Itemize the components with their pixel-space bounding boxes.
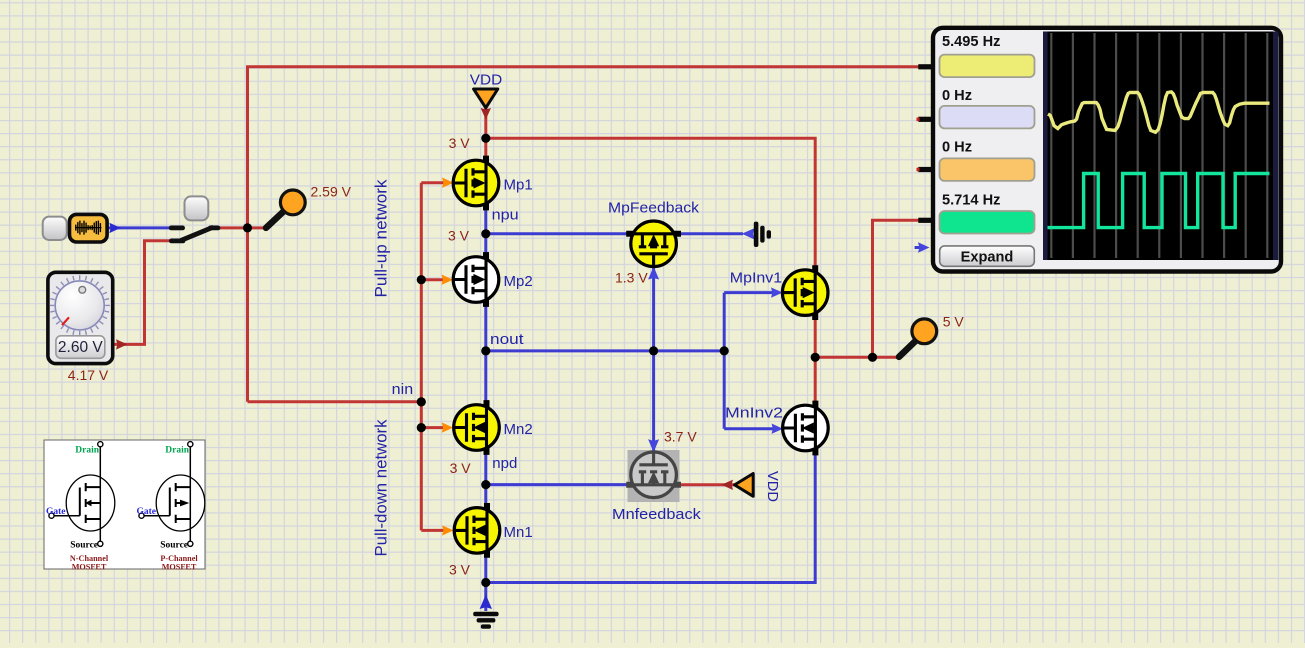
svg-text:4.17 V: 4.17 V xyxy=(68,367,109,383)
svg-text:3 V: 3 V xyxy=(449,135,471,151)
svg-text:MpFeedback: MpFeedback xyxy=(608,199,700,216)
svg-text:0 Hz: 0 Hz xyxy=(942,139,972,155)
svg-text:Gate: Gate xyxy=(46,507,66,517)
svg-text:Pull-down network: Pull-down network xyxy=(373,419,391,557)
svg-text:5 V: 5 V xyxy=(943,313,965,329)
svg-text:MOSFET: MOSFET xyxy=(162,562,197,571)
svg-text:Pull-up network: Pull-up network xyxy=(373,179,391,298)
svg-text:Expand: Expand xyxy=(961,249,1014,265)
svg-text:2.59 V: 2.59 V xyxy=(311,184,352,200)
svg-text:5.495 Hz: 5.495 Hz xyxy=(942,34,1000,50)
svg-text:Drain: Drain xyxy=(75,445,99,455)
svg-text:Drain: Drain xyxy=(165,445,189,455)
svg-text:Mn1: Mn1 xyxy=(504,524,533,541)
svg-text:npd: npd xyxy=(492,455,517,472)
svg-text:Mp1: Mp1 xyxy=(504,177,533,194)
svg-text:Mnfeedback: Mnfeedback xyxy=(612,506,701,523)
svg-text:Source: Source xyxy=(70,540,98,550)
svg-text:3 V: 3 V xyxy=(448,227,470,243)
svg-text:Mn2: Mn2 xyxy=(504,421,533,438)
svg-text:0 Hz: 0 Hz xyxy=(942,88,972,104)
svg-text:2.60 V: 2.60 V xyxy=(58,339,103,356)
svg-text:nout: nout xyxy=(490,331,524,348)
svg-text:Source: Source xyxy=(160,540,188,550)
svg-text:MpInv1: MpInv1 xyxy=(730,269,782,286)
svg-text:MOSFET: MOSFET xyxy=(72,562,107,571)
svg-text:VDD: VDD xyxy=(764,471,781,502)
svg-text:VDD: VDD xyxy=(470,72,503,89)
svg-text:MnInv2: MnInv2 xyxy=(725,405,783,422)
svg-text:3.7 V: 3.7 V xyxy=(664,428,697,444)
svg-text:3 V: 3 V xyxy=(450,460,472,476)
svg-text:Mp2: Mp2 xyxy=(504,273,533,290)
svg-text:nin: nin xyxy=(392,381,414,398)
svg-text:5.714 Hz: 5.714 Hz xyxy=(942,192,1000,208)
svg-text:npu: npu xyxy=(492,207,519,224)
svg-text:Gate: Gate xyxy=(136,507,156,517)
svg-text:1.3 V: 1.3 V xyxy=(615,269,648,285)
svg-text:3 V: 3 V xyxy=(449,562,471,578)
